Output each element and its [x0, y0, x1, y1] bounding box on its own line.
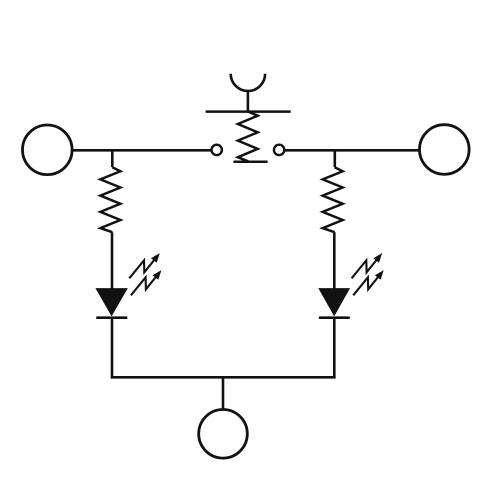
resistor R2 (right): [323, 167, 343, 232]
wire: R2 to D2: [333, 232, 336, 289]
node J1: wire from left rail down to R1: [111, 149, 114, 167]
LED D2 anode triangle: [318, 288, 350, 316]
LED D1 anode triangle: [95, 288, 127, 316]
terminal T1 (left input circle): [23, 125, 73, 175]
jack contact (left open circle): [212, 145, 222, 155]
LED D2 emission arrow (lower): [353, 270, 384, 295]
terminal T2 (right input circle): [420, 125, 470, 175]
R3 bottom terminal stub: [234, 160, 268, 163]
resistor R1 (left): [100, 167, 120, 232]
bottom rail wire: [111, 376, 336, 379]
wire: D2 to bottom rail: [333, 318, 336, 379]
resistor R3 (center vertical): [238, 112, 258, 162]
wire: right jack contact to T2: [284, 149, 419, 152]
LED D1 emission arrow (lower): [131, 270, 162, 295]
wire: D1 to bottom rail: [111, 318, 114, 379]
jack contact (right open circle): [274, 145, 284, 155]
wire: T1 to left jack contact: [72, 149, 212, 152]
LED D1 cathode bar: [96, 316, 127, 319]
plug cup (earpiece handle, semicircle): [231, 74, 265, 91]
LED D2 cathode bar: [319, 316, 350, 319]
node J2: wire from right rail down to R2: [333, 149, 336, 167]
LED D1 emission arrow (upper): [129, 253, 160, 278]
LED D2 emission arrow (upper): [352, 253, 383, 278]
wire: cup stem: [247, 90, 250, 112]
terminal T3 (bottom common circle): [199, 410, 248, 459]
wiper bar (horizontal): [206, 110, 291, 113]
wire: bottom rail to T3: [222, 377, 225, 410]
wire: R1 to D1: [111, 232, 114, 289]
